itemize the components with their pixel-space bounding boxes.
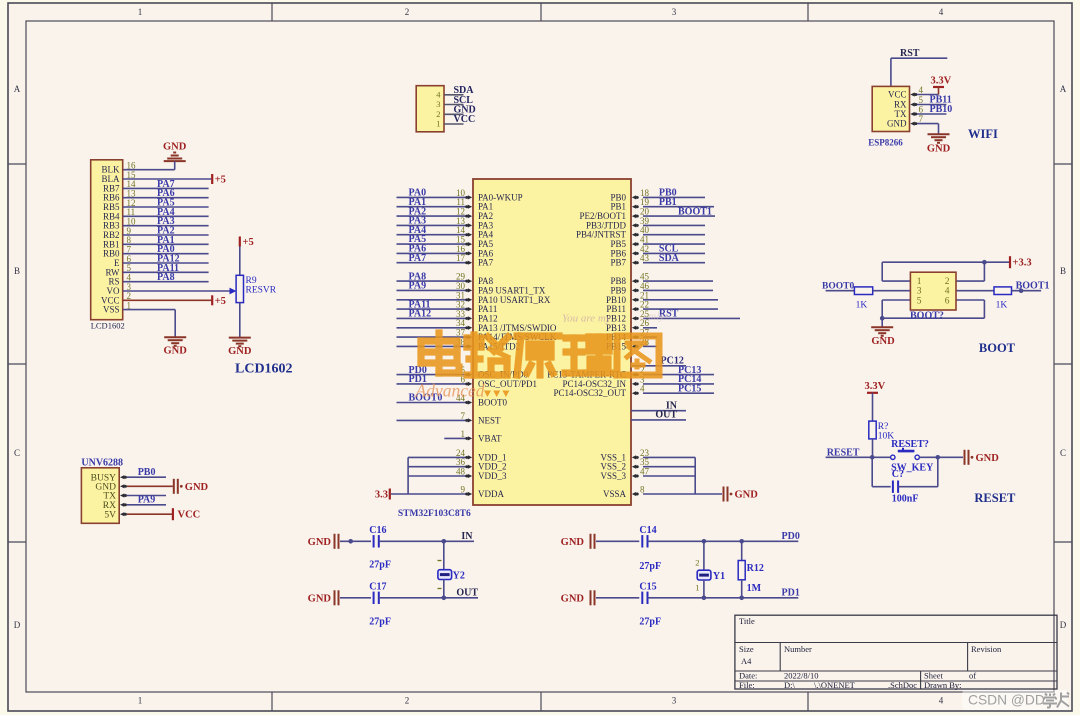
svg-text:R9: R9 [246,276,257,286]
svg-text:R12: R12 [747,563,764,574]
svg-text:100nF: 100nF [892,494,919,505]
svg-text:4: 4 [919,85,924,95]
svg-text:C: C [14,448,20,458]
svg-text:PB1: PB1 [659,197,677,208]
svg-text:A: A [14,84,21,94]
svg-text:ESP8266: ESP8266 [868,138,903,148]
svg-text:GND: GND [887,119,907,129]
svg-text:4: 4 [939,696,944,706]
svg-text:UNV6288: UNV6288 [81,458,123,469]
svg-text:D:\: D:\ [784,680,796,690]
svg-text:OSC_OUT/PD1: OSC_OUT/PD1 [478,379,537,389]
svg-text:IN: IN [461,531,473,542]
svg-text:C17: C17 [369,582,386,593]
svg-text:NEST: NEST [478,415,501,425]
svg-text:8: 8 [640,485,645,495]
svg-text:+5: +5 [215,296,226,307]
svg-text:27pF: 27pF [369,617,391,628]
svg-text:RST: RST [900,48,920,59]
svg-text:5: 5 [917,296,922,306]
svg-text:GND: GND [164,346,188,357]
svg-text:3.3V: 3.3V [865,381,886,392]
svg-text:C: C [1060,448,1066,458]
svg-text:Date:: Date: [739,671,757,681]
svg-text:1: 1 [436,119,440,129]
svg-text:Size: Size [739,644,754,654]
svg-text:PA9: PA9 [409,281,427,292]
svg-text:3: 3 [672,696,677,706]
svg-text:PD1: PD1 [782,588,800,599]
svg-text:PA12: PA12 [409,309,432,320]
svg-text:VCC: VCC [454,114,476,125]
svg-text:43: 43 [640,253,650,263]
svg-text:GND: GND [561,593,585,604]
svg-text:4: 4 [945,287,950,297]
svg-text:VSS_3: VSS_3 [600,471,626,481]
svg-text:1: 1 [138,696,143,706]
svg-text:Y2: Y2 [453,571,465,582]
svg-text:1K: 1K [996,301,1008,311]
svg-text:WIFI: WIFI [968,127,998,141]
svg-text:PA7: PA7 [409,253,427,264]
svg-text:1K: 1K [856,301,868,311]
svg-text:RESET: RESET [974,491,1016,505]
svg-text:3.3: 3.3 [375,490,388,501]
svg-text:BOOT: BOOT [979,341,1016,355]
svg-text:Number: Number [784,644,812,654]
svg-text:3: 3 [436,99,440,109]
svg-text:A: A [1060,84,1067,94]
svg-text:9: 9 [461,485,466,495]
svg-text:1M: 1M [747,583,762,594]
svg-text:4: 4 [640,384,645,394]
svg-text:BOOT1: BOOT1 [1016,280,1050,291]
svg-text:17: 17 [456,253,466,263]
svg-text:VDDA: VDDA [478,489,504,499]
svg-text:1: 1 [917,277,922,287]
svg-text:VCC: VCC [178,510,201,521]
svg-text:Y1: Y1 [713,571,725,582]
svg-text:a mly: a mly [640,311,664,323]
svg-text:TX: TX [895,109,907,119]
svg-text:+5: +5 [215,175,226,186]
svg-text:GND: GND [308,537,332,548]
svg-text:2: 2 [695,558,699,568]
svg-text:VCC: VCC [888,90,907,100]
svg-text:You are my: You are my [562,313,611,325]
svg-text:C?: C? [892,469,904,480]
svg-text:1: 1 [138,7,143,17]
svg-text:C15: C15 [639,582,656,593]
svg-text:\.\ONENET: \.\ONENET [814,680,856,690]
svg-text:OUT: OUT [456,588,478,599]
svg-text:6: 6 [919,105,924,115]
svg-text:2: 2 [405,696,410,706]
svg-text:A4: A4 [741,656,752,666]
svg-text:+3.3: +3.3 [1013,258,1032,269]
svg-text:SDA: SDA [659,253,680,264]
svg-text:C16: C16 [369,525,386,536]
svg-text:PA8: PA8 [157,272,175,283]
svg-text:PA7: PA7 [478,258,494,268]
svg-text:VBAT: VBAT [478,433,502,443]
svg-text:GND: GND [163,142,187,153]
svg-text:PB10: PB10 [930,104,953,115]
svg-text:GND: GND [308,593,332,604]
svg-text:27pF: 27pF [639,617,661,628]
svg-text:2: 2 [945,277,950,287]
svg-text:LCD1602: LCD1602 [91,321,125,331]
svg-text:RESVR: RESVR [246,286,277,296]
svg-text:D: D [14,620,21,630]
svg-text:3: 3 [672,7,677,17]
svg-text:Advanced: Advanced [415,381,485,401]
svg-text:LCD1602: LCD1602 [235,362,293,377]
svg-text:CSDN @DD: CSDN @DD [968,693,1045,708]
svg-text:R?: R? [878,422,889,432]
svg-text:3.3V: 3.3V [931,76,952,87]
svg-text:3: 3 [917,287,922,297]
svg-text:GND: GND [927,144,951,155]
svg-text:PB0: PB0 [138,467,156,478]
svg-text:BOOT1: BOOT1 [678,206,712,217]
svg-text:5V: 5V [104,510,116,520]
svg-text:VSS: VSS [103,305,120,315]
svg-text:STM32F103C8T6: STM32F103C8T6 [398,509,471,519]
svg-text:PA9: PA9 [138,495,156,506]
svg-text:VDD_3: VDD_3 [478,471,507,481]
svg-text:D: D [1060,620,1067,630]
svg-text:Drawn By:: Drawn By: [924,680,962,690]
svg-text:B: B [1060,266,1066,276]
svg-text:VSSA: VSSA [603,489,627,499]
svg-text:2022/8/10: 2022/8/10 [784,671,818,681]
svg-text:RESET?: RESET? [891,439,929,450]
svg-text:BOOT?: BOOT? [910,311,944,322]
svg-text:GND: GND [185,482,209,493]
svg-text:PB7: PB7 [610,258,626,268]
svg-text:Revision: Revision [971,644,1002,654]
svg-text:7: 7 [919,114,924,124]
svg-text:PC14-OSC32_OUT: PC14-OSC32_OUT [553,388,626,398]
svg-text:File:: File: [739,680,755,690]
svg-text:OUT: OUT [655,410,677,421]
svg-text:1: 1 [695,583,699,593]
svg-text:2: 2 [405,7,410,17]
svg-text:27pF: 27pF [369,560,391,571]
svg-text:48: 48 [456,467,466,477]
svg-text:Title: Title [739,616,755,626]
svg-text:Sheet: Sheet [924,671,944,681]
svg-text:of: of [969,671,976,681]
svg-text:.SchDoc: .SchDoc [888,680,917,690]
svg-text:B: B [14,266,20,276]
svg-text:+5: +5 [243,237,254,248]
svg-text:PD0: PD0 [782,531,800,542]
svg-text:2: 2 [436,109,440,119]
svg-text:1: 1 [461,429,466,439]
svg-text:GND: GND [228,346,252,357]
svg-text:7: 7 [461,411,466,421]
svg-text:6: 6 [945,296,950,306]
svg-text:47: 47 [640,467,650,477]
svg-text:GND: GND [735,490,759,501]
svg-text:5: 5 [919,95,924,105]
svg-text:GND: GND [976,453,1000,464]
svg-text:4: 4 [939,7,944,17]
svg-text:RX: RX [894,100,907,110]
svg-text:GND: GND [561,537,585,548]
svg-text:GND: GND [871,336,895,347]
svg-text:PC15: PC15 [678,383,701,394]
svg-text:C14: C14 [639,525,656,536]
svg-text:27pF: 27pF [639,561,661,572]
